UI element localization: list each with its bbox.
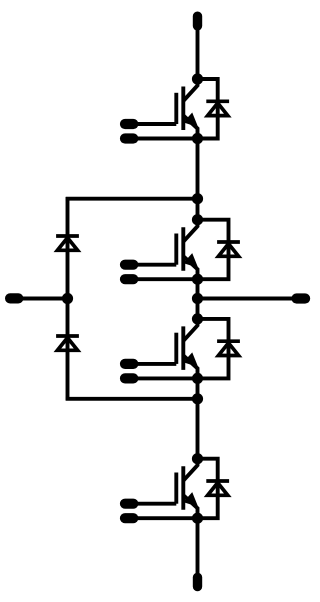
wire: Q2 emitter to Q3 collector	[196, 279, 200, 319]
node clamp-upper junction	[192, 193, 203, 204]
node Q1 emitter	[192, 133, 203, 144]
wire: gate lead of Q4	[136, 502, 176, 506]
wire: antiparallel diode branch of Q3	[198, 319, 229, 379]
wire: gate lead of Q2	[136, 263, 176, 267]
diode D4 (antiparallel to Q4)	[206, 479, 229, 483]
wire: antiparallel diode branch of Q2	[198, 220, 229, 280]
igbt Q1	[176, 79, 197, 139]
wire: upper clamp horizontal	[66, 197, 198, 201]
wire: Q4 emitter to DC- terminal	[196, 518, 200, 574]
node Q3 collector	[192, 313, 203, 324]
terminal emitter aux stub of Q3	[120, 373, 138, 383]
wire: neutral terminal lead	[22, 297, 68, 301]
terminal gate stub of Q1	[120, 119, 138, 129]
node Q2 collector	[192, 214, 203, 225]
wire: output lead	[198, 297, 293, 301]
node Q3 emitter	[192, 373, 203, 384]
diode D3 (antiparallel to Q3)	[217, 339, 240, 343]
terminal N (neutral, left)	[5, 293, 23, 303]
node neutral point	[62, 293, 73, 304]
diode D6 (lower clamp)	[56, 334, 79, 338]
wire: DC+ terminal to Q1 collector node	[196, 29, 200, 79]
wire: Q1 emitter to Q2 collector	[196, 139, 200, 220]
igbt Q2	[176, 220, 197, 280]
terminal gate stub of Q4	[120, 499, 138, 509]
terminal emitter aux stub of Q4	[120, 513, 138, 523]
terminal AC output (right)	[291, 293, 310, 303]
wire: emitter aux lead of Q2	[136, 277, 194, 281]
igbt Q3	[176, 319, 197, 379]
terminal emitter aux stub of Q1	[120, 133, 138, 143]
node output (phase)	[192, 293, 203, 304]
node Q1 collector	[192, 73, 203, 84]
terminal DC- (bottom)	[193, 573, 202, 592]
node Q4 collector	[192, 453, 203, 464]
wire: emitter aux lead of Q1	[136, 137, 194, 141]
terminal gate stub of Q2	[120, 260, 138, 270]
wire: antiparallel diode branch of Q4	[198, 459, 218, 519]
node Q4 emitter	[192, 513, 203, 524]
terminal gate stub of Q3	[120, 359, 138, 369]
diode D2 (antiparallel to Q2)	[217, 240, 240, 244]
node Q2 emitter	[192, 274, 203, 285]
wire: gate lead of Q1	[136, 122, 176, 126]
wire: clamp chain vertical	[66, 197, 70, 401]
wire: Q3 emitter to Q4 collector	[196, 378, 200, 458]
wire: emitter aux lead of Q4	[136, 516, 194, 520]
diode D1 (antiparallel to Q1)	[206, 99, 229, 103]
igbt Q4	[176, 459, 197, 519]
wire: lower clamp horizontal	[66, 397, 198, 401]
terminal emitter aux stub of Q2	[120, 274, 138, 284]
wire: antiparallel diode branch of Q1	[198, 79, 218, 139]
wire: emitter aux lead of Q3	[136, 376, 194, 380]
node clamp-lower junction	[192, 393, 203, 404]
wire: gate lead of Q3	[136, 362, 176, 366]
diode D5 (upper clamp)	[56, 234, 79, 238]
terminal DC+ (top)	[193, 12, 202, 31]
